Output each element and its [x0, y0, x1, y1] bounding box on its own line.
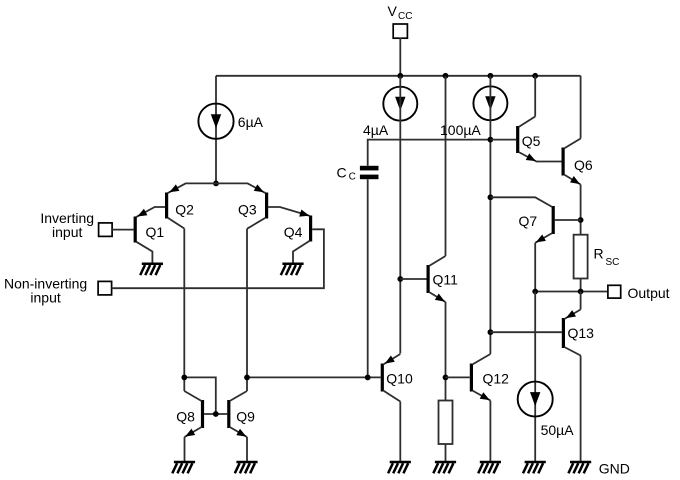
- transistor Q5: [518, 117, 562, 162]
- svg-text:Q1: Q1: [146, 224, 165, 240]
- label CC: [337, 164, 356, 182]
- svg-text:50µA: 50µA: [541, 422, 575, 438]
- wire non-inverting input to Q4 base: [112, 229, 324, 288]
- wire inverting input to Q1 base: [112, 229, 134, 231]
- transistor Q1: [135, 207, 165, 263]
- junction bus / 4uA: [397, 73, 403, 79]
- wire Q7 emitter down: [534, 243, 536, 292]
- svg-text:C: C: [337, 164, 347, 180]
- wire Q9 emitter to ground: [246, 437, 248, 462]
- terminal non-inverting input: [98, 281, 112, 295]
- resistor R1: [439, 401, 453, 445]
- transistor Q11: [428, 256, 445, 302]
- svg-text:Q4: Q4: [284, 224, 303, 240]
- wire Q8 Q9 bases: [204, 413, 227, 415]
- svg-text:Q12: Q12: [483, 371, 510, 387]
- label VCC: [388, 3, 413, 22]
- junction bus / Q11 collector: [443, 73, 449, 79]
- junction Q13 base: [488, 329, 494, 335]
- transistor Q10: [382, 354, 400, 402]
- wire Q2 collector down: [183, 229, 185, 392]
- wire Q11 emitter down: [445, 302, 447, 401]
- junction Cc bottom: [365, 375, 371, 381]
- junction Q3 / Q9 collectors: [244, 375, 250, 381]
- wire 4uA branch bus to Q10 emitter: [399, 76, 401, 354]
- svg-text:GND: GND: [599, 460, 630, 476]
- junction Q11 emitter / Q12 base: [443, 375, 449, 381]
- terminal output: [608, 285, 621, 298]
- current source 100uA: [473, 86, 507, 120]
- ground under 50uA: [523, 462, 546, 473]
- wire VCC terminal to bus: [399, 38, 401, 76]
- svg-text:Q9: Q9: [236, 408, 255, 424]
- wire Q7 base: [555, 219, 581, 221]
- wire Rsc to output node: [580, 279, 582, 292]
- transistor Q2: [167, 183, 216, 228]
- terminal inverting input: [99, 223, 113, 237]
- transistor Q4: [268, 207, 311, 263]
- ground under R1: [433, 462, 456, 473]
- svg-text:6µA: 6µA: [238, 114, 264, 130]
- current source 50uA: [518, 382, 553, 417]
- wire Q10 collector to ground: [399, 402, 401, 463]
- svg-text:Q3: Q3: [238, 201, 257, 217]
- wire Q11 collector to bus: [445, 76, 447, 256]
- svg-text:Q11: Q11: [433, 272, 459, 288]
- label RSC: [594, 245, 620, 268]
- wire Q8 emitter to ground: [184, 437, 186, 462]
- ground under Q9: [235, 462, 258, 473]
- wire Q13 collector to ground: [580, 356, 582, 463]
- label Non-inverting input: [4, 276, 87, 306]
- current source 6uA: [198, 104, 233, 139]
- svg-text:Q13: Q13: [568, 325, 595, 341]
- ground under Q4: [281, 264, 304, 275]
- junction Q7 collector: [488, 194, 494, 200]
- junction bus / 100uA: [488, 73, 494, 79]
- transistor Q13: [563, 310, 580, 356]
- wire Cc top to 100uA node: [368, 140, 491, 166]
- terminal VCC: [393, 24, 407, 38]
- node input pair emitters: [213, 181, 219, 187]
- resistor RSC: [574, 235, 588, 279]
- junction Q8-Q9 base link: [213, 411, 219, 417]
- wire Q3 collector down: [246, 229, 248, 391]
- junction 100uA / Q5 base / Cc: [488, 137, 494, 143]
- svg-text:CC: CC: [398, 11, 412, 22]
- wire output line: [535, 291, 608, 293]
- wire Cc bottom to Q10 base rail: [367, 179, 369, 377]
- wire Q2 collector to Q8 diode link: [184, 377, 216, 414]
- transistor Q6: [563, 139, 581, 185]
- transistor Q7: [490, 197, 553, 243]
- wire Q13 emitter to output: [580, 292, 582, 310]
- ground under Q10: [388, 462, 411, 473]
- svg-text:Q2: Q2: [175, 201, 194, 217]
- wire R1 to ground: [445, 444, 447, 462]
- svg-text:Q6: Q6: [574, 157, 593, 173]
- ground under Q8: [172, 462, 195, 473]
- junction Q2 collector / Q8 collector: [181, 375, 187, 381]
- svg-text:Q10: Q10: [386, 371, 413, 387]
- wire Q13 base: [490, 331, 562, 333]
- svg-text:4µA: 4µA: [363, 122, 389, 138]
- transistor Q12: [471, 354, 490, 401]
- transistor Q3: [216, 183, 267, 228]
- current source 4uA: [383, 87, 417, 121]
- svg-text:C: C: [349, 172, 356, 183]
- svg-text:input: input: [52, 224, 82, 240]
- transistor Q9: [229, 391, 247, 437]
- wire bus through 6uA source: [215, 76, 217, 184]
- svg-text:input: input: [30, 290, 60, 306]
- junction Q6 emitter / Q7 base / Rsc: [578, 217, 584, 223]
- label Inverting input: [40, 210, 94, 240]
- wire Q12 emitter to ground: [489, 401, 491, 463]
- wire Q6 emitter to Rsc: [580, 185, 582, 235]
- ground under Q1: [140, 264, 163, 275]
- junction output / Rsc / Q13: [578, 289, 584, 295]
- wire top supply bus: [216, 75, 581, 77]
- wire Q5 base: [490, 139, 516, 141]
- svg-text:SC: SC: [606, 257, 620, 268]
- svg-text:R: R: [594, 245, 604, 261]
- capacitor CC: [360, 166, 379, 179]
- wire Q9 collector to Q10 base: [247, 376, 381, 378]
- svg-text:100µA: 100µA: [440, 122, 481, 138]
- wire Q6 collector to bus: [580, 76, 582, 139]
- transistor Q8: [184, 391, 202, 437]
- junction 4uA / Q11 base: [397, 276, 403, 282]
- ground under Q13: [568, 462, 591, 473]
- junction output / Q7-50uA: [532, 289, 538, 295]
- ground under Q12: [478, 462, 501, 473]
- wire Q11 base: [400, 278, 426, 280]
- svg-text:Q5: Q5: [522, 133, 541, 149]
- junction bus / Q5 collector: [532, 73, 538, 79]
- svg-text:Output: Output: [628, 285, 670, 301]
- svg-text:Q7: Q7: [519, 213, 538, 229]
- wire Q12 base: [446, 376, 470, 378]
- svg-text:Q8: Q8: [176, 408, 195, 424]
- wire 100uA branch bus to Q12 collector: [489, 76, 491, 354]
- wire output node to 50uA to ground: [534, 292, 536, 463]
- svg-text:V: V: [388, 3, 398, 19]
- wire Q5 collector to bus: [534, 76, 536, 117]
